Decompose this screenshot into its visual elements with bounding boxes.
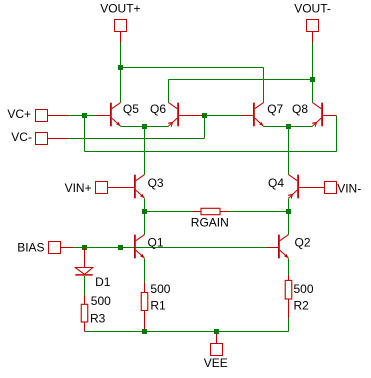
label Q5 [123, 102, 139, 116]
label R2 [294, 299, 310, 313]
wire RGAIN right [229, 211, 289, 213]
wire Q4 emitter down [288, 199, 290, 235]
wire Q6 base node to Q7 base [205, 115, 242, 117]
svg-text:VC-: VC- [11, 130, 32, 144]
junction [142, 124, 147, 129]
wire VOUT+ rail [121, 67, 264, 69]
label R3 [90, 312, 106, 326]
label Q3 [148, 176, 164, 190]
wire BIAS to Q1/Q2 bases [73, 247, 270, 249]
port VC- [36, 133, 48, 145]
port VIN+ [96, 182, 108, 194]
wire VOUT- rail [169, 79, 313, 81]
label Q6 [150, 102, 166, 116]
wire Q5-Q6 emitters [121, 126, 169, 128]
wire VC- up to Q6/Q7 bases [204, 116, 206, 139]
junction [286, 124, 291, 129]
resistor R1 [144, 282, 146, 292]
junction [202, 113, 207, 118]
junction [82, 245, 87, 250]
resistor R3 [84, 295, 86, 304]
resistor R2 [288, 275, 290, 280]
svg-text:500: 500 [91, 294, 111, 308]
wire down to Q3 collector [144, 127, 146, 175]
wire rail down to Q6 collector [168, 80, 170, 103]
base stub Q5 [96, 115, 111, 117]
label VC+ [7, 107, 31, 121]
port VOUT- [307, 20, 319, 32]
svg-text:R2: R2 [294, 299, 310, 313]
port VOUT+ [115, 20, 127, 32]
port VEE [211, 344, 223, 356]
value 500 of R2 [294, 282, 314, 296]
wire VC+ node down [84, 116, 86, 152]
label VOUT- [294, 2, 331, 16]
label RGAIN [191, 215, 229, 229]
junction [82, 113, 87, 118]
wire rail down to Q7 collector [263, 68, 265, 103]
transistor Q2 [278, 235, 280, 259]
svg-text:Q7: Q7 [267, 102, 283, 116]
svg-text:Q8: Q8 [292, 102, 308, 116]
label VC- [11, 130, 32, 144]
wire Q2 emitter to R2 [288, 259, 290, 276]
label Q4 [268, 176, 284, 190]
label D1 [95, 275, 111, 289]
svg-text:Q4: Q4 [268, 176, 284, 190]
svg-text:VC+: VC+ [7, 107, 31, 121]
wire VC+ to Q5 base [68, 115, 96, 117]
svg-text:VIN-: VIN- [337, 182, 361, 196]
svg-text:500: 500 [150, 282, 170, 296]
label Q1 [148, 236, 164, 250]
svg-text:D1: D1 [95, 275, 111, 289]
wire RGAIN left [145, 211, 193, 213]
wire down to Q4 collector [288, 127, 290, 175]
wire Q3 emitter down [144, 199, 146, 235]
transistor Q6 [177, 103, 179, 127]
base stub Q7 [241, 115, 254, 117]
base stub Q2 [267, 247, 279, 249]
junction [310, 77, 315, 82]
label VIN- [337, 182, 361, 196]
resistor RGAIN [193, 211, 201, 213]
label VOUT+ [100, 2, 140, 16]
svg-text:RGAIN: RGAIN [191, 215, 229, 229]
junction [286, 209, 291, 214]
transistor Q1 [134, 235, 136, 259]
wire VOUT- down to Q8 collector [312, 44, 314, 103]
wire VEE rail [85, 331, 289, 333]
svg-text:BIAS: BIAS [17, 241, 44, 255]
svg-text:500: 500 [294, 282, 314, 296]
value 500 of R3 [91, 294, 111, 308]
svg-text:R3: R3 [90, 312, 106, 326]
transistor Q4 [297, 175, 299, 199]
label Q7 [267, 102, 283, 116]
wire VC+ node across to Q8 base [85, 151, 337, 153]
junction [142, 329, 147, 334]
wire R2 to rail [288, 318, 290, 331]
svg-text:Q6: Q6 [150, 102, 166, 116]
label VEE [204, 356, 228, 370]
label VIN+ [65, 181, 92, 195]
svg-text:R1: R1 [150, 298, 166, 312]
svg-text:Q2: Q2 [295, 236, 311, 250]
svg-text:VOUT+: VOUT+ [100, 2, 140, 16]
junction [214, 329, 219, 334]
wire Q1 emitter to R1 [144, 259, 146, 283]
transistor Q7 [253, 103, 255, 127]
junction [118, 65, 123, 70]
label Q2 [295, 236, 311, 250]
value 500 of R1 [150, 282, 170, 296]
port VC+ [36, 110, 48, 122]
svg-text:Q3: Q3 [148, 176, 164, 190]
base stub Q8 [322, 115, 336, 117]
label Q8 [292, 102, 308, 116]
wire D1 cathode to R3 [84, 276, 86, 296]
svg-text:Q5: Q5 [123, 102, 139, 116]
wire VOUT+ down to Q5 collector [120, 43, 122, 103]
label R1 [150, 298, 166, 312]
transistor Q8 [321, 103, 323, 127]
wire Q7-Q8 emitters [264, 126, 313, 128]
transistor Q5 [110, 103, 112, 127]
svg-text:Q1: Q1 [148, 236, 164, 250]
base stub Q6 [178, 115, 203, 117]
svg-text:VOUT-: VOUT- [294, 2, 331, 16]
junction [142, 209, 147, 214]
junction [118, 245, 123, 250]
diode D1 [84, 248, 86, 268]
port VIN- [325, 182, 337, 194]
port BIAS [49, 242, 61, 254]
svg-text:VEE: VEE [204, 356, 228, 370]
wire VC- across [68, 138, 205, 140]
wire up to Q8 base [336, 116, 338, 152]
svg-text:VIN+: VIN+ [65, 181, 92, 195]
label BIAS [17, 241, 44, 255]
transistor Q3 [134, 175, 136, 199]
